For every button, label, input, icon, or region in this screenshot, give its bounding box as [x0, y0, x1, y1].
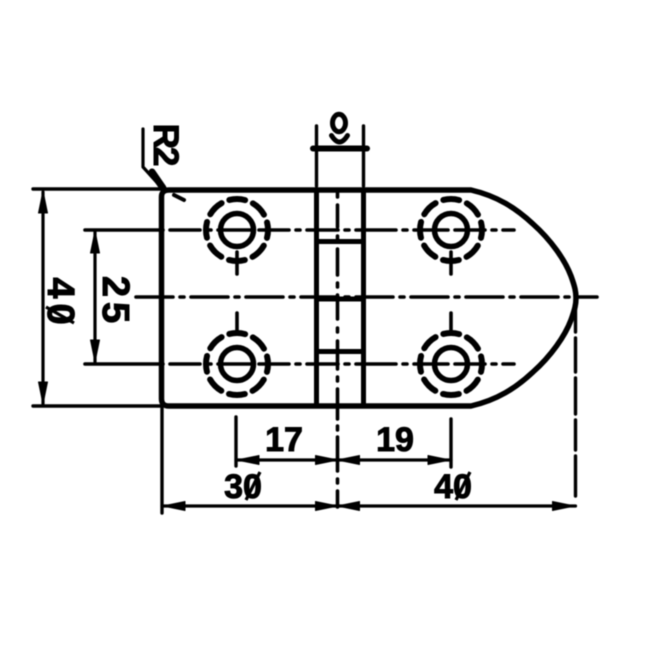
label 40 bottom zero slash [456, 472, 470, 500]
hole bottom-right dashed circle [420, 333, 482, 395]
top dim line [313, 146, 367, 152]
hole top-left vertical dash [235, 252, 239, 274]
dim 40 left: arrow up [39, 191, 48, 213]
dim 40 left: dimension line [41, 192, 44, 404]
knuckle division bar 1 [317, 239, 364, 244]
knuckle left line [314, 190, 319, 406]
top dim extension left [315, 126, 318, 186]
bottom holes row centerline [85, 362, 514, 366]
hole bottom-right inner circle [435, 348, 468, 381]
dim 17 arrow left [237, 456, 259, 465]
pin vertical centerline [336, 193, 340, 507]
top holes row centerline [85, 228, 514, 232]
svg-text:19: 19 [376, 421, 414, 459]
R2 leader line [143, 129, 162, 188]
svg-text:30: 30 [224, 468, 262, 506]
svg-text:25: 25 [94, 276, 136, 328]
dim 17/19: extension left hole column [234, 417, 237, 466]
knuckle division bar 2 [317, 297, 364, 302]
dim 17 arrow right / 19 arrow left [316, 456, 338, 465]
hole bottom-left vertical dash [235, 313, 239, 331]
dim 40 left: extension top [33, 187, 161, 190]
dim 30/40: dimension line [162, 504, 576, 507]
top glyph ring [333, 114, 346, 131]
label 30 zero slash [246, 472, 260, 500]
hole bottom-left dashed circle [206, 333, 268, 395]
main horizontal centerline [136, 295, 597, 299]
R2 leader arrow blob [152, 172, 163, 188]
hole bottom-left inner circle [221, 348, 254, 381]
dim 30 arrow right / 40 arrow left [316, 502, 338, 511]
hinge plate outline [162, 190, 577, 406]
hole bottom-right vertical dash [449, 313, 453, 331]
dim 25: arrow up [91, 231, 100, 253]
dim 19 arrow right [428, 456, 450, 465]
svg-text:40: 40 [434, 468, 472, 506]
top glyph smile [332, 136, 348, 143]
dim 25: dimension line [93, 232, 96, 362]
dim 40 left: arrow down [39, 382, 48, 404]
top dim extension right [362, 126, 365, 186]
knuckle division bar 3 [317, 349, 364, 354]
hole top-left inner circle [221, 214, 254, 247]
dim 30/40: extension right end [574, 300, 577, 513]
hole top-right dashed circle [420, 199, 482, 261]
dim 40 arrow right [553, 502, 575, 511]
knuckle right line [361, 190, 366, 406]
svg-text:40: 40 [39, 277, 81, 329]
dim 30 arrow left [163, 502, 185, 511]
dim 25: arrow down [91, 340, 100, 362]
R2 corner tick [174, 195, 184, 200]
hole top-right vertical dash [449, 252, 453, 274]
dim 40 left: extension bottom [33, 404, 161, 407]
svg-text:17: 17 [265, 421, 303, 459]
dim 30/40: extension left plate edge [160, 408, 163, 513]
hole top-right inner circle [435, 214, 468, 247]
hole top-left dashed circle [206, 199, 268, 261]
dim 17/19: extension right hole column [449, 419, 452, 467]
dim 17/19: dimension line [236, 458, 451, 461]
label 40 left (rotated) [39, 277, 81, 329]
svg-text:R2: R2 [146, 124, 185, 166]
